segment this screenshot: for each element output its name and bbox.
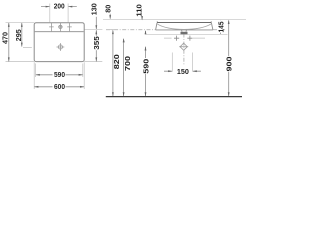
svg-text:820: 820 [112, 54, 121, 69]
svg-text:295: 295 [14, 29, 23, 42]
svg-text:145: 145 [216, 21, 225, 33]
svg-text:130: 130 [89, 3, 98, 15]
svg-text:590: 590 [54, 70, 65, 79]
svg-text:600: 600 [54, 82, 65, 91]
svg-text:590: 590 [141, 59, 150, 74]
svg-text:900: 900 [225, 57, 234, 72]
svg-text:355: 355 [92, 35, 101, 49]
svg-text:150: 150 [177, 67, 189, 76]
svg-text:470: 470 [1, 32, 10, 44]
svg-text:700: 700 [123, 56, 132, 71]
svg-text:200: 200 [54, 2, 65, 11]
svg-text:110: 110 [134, 4, 143, 17]
svg-text:80: 80 [103, 5, 112, 13]
